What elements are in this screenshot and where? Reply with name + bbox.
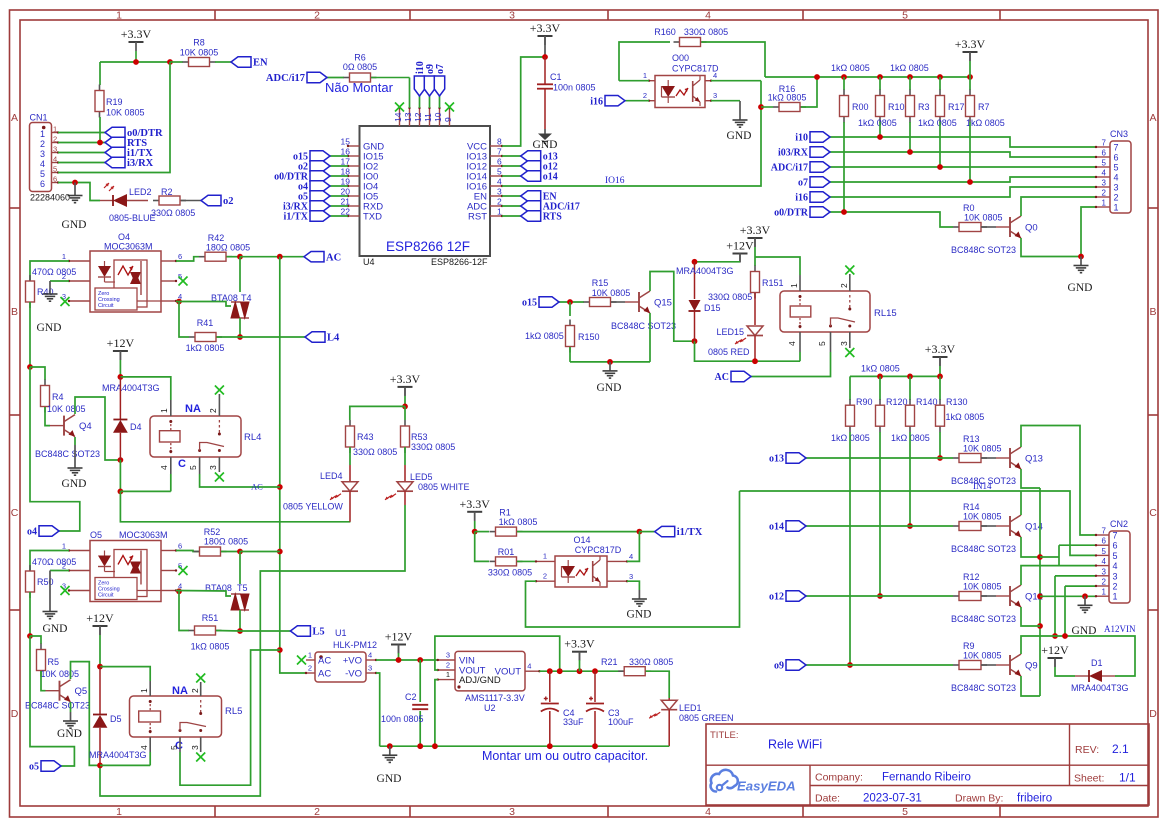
svg-text:R1: R1 [499,508,511,518]
svg-text:Q9: Q9 [1025,661,1038,672]
svg-text:CN2: CN2 [1110,519,1128,529]
svg-text:RST: RST [468,212,487,223]
svg-text:o13: o13 [769,454,784,465]
svg-text:R19: R19 [106,97,123,107]
svg-text:O4: O4 [118,232,130,242]
svg-text:3: 3 [1113,571,1118,581]
svg-text:3: 3 [190,745,200,750]
svg-text:9: 9 [443,117,453,122]
svg-text:L4: L4 [327,333,340,344]
svg-text:R52: R52 [204,527,221,537]
svg-text:A12VIN: A12VIN [1104,624,1136,634]
svg-text:LED2: LED2 [129,187,152,197]
svg-text:2: 2 [190,688,200,693]
svg-text:o15: o15 [522,298,537,309]
svg-text:o4: o4 [27,527,37,538]
svg-text:R3: R3 [918,102,930,112]
svg-text:U2: U2 [484,703,496,713]
svg-text:LED15: LED15 [716,327,744,337]
svg-text:2.1: 2.1 [1112,742,1129,756]
svg-text:GND: GND [533,139,558,151]
svg-text:6: 6 [1114,153,1119,163]
svg-text:D: D [11,708,19,720]
svg-text:3: 3 [53,145,57,154]
svg-text:Drawn By:: Drawn By: [955,793,1003,805]
svg-text:18: 18 [341,167,351,177]
svg-text:i16: i16 [795,193,808,204]
svg-text:3: 3 [1114,183,1119,193]
svg-text:GND: GND [597,382,622,394]
svg-text:2: 2 [1102,189,1107,198]
svg-text:10: 10 [433,112,443,122]
svg-text:1: 1 [116,806,122,818]
svg-text:5: 5 [902,10,908,22]
svg-text:Q0: Q0 [1025,223,1038,234]
svg-text:BC848C SOT23: BC848C SOT23 [25,701,90,711]
svg-text:1: 1 [1102,199,1107,208]
svg-text:1kΩ 0805: 1kΩ 0805 [946,412,985,422]
svg-text:1: 1 [139,688,149,693]
svg-text:+VO: +VO [343,656,362,667]
svg-text:1kΩ 0805: 1kΩ 0805 [191,642,230,652]
svg-text:12: 12 [413,112,423,122]
svg-text:14: 14 [393,112,403,122]
svg-text:20: 20 [341,187,351,197]
svg-text:7: 7 [1102,139,1107,148]
svg-text:Rele WiFi: Rele WiFi [768,738,822,752]
svg-text:Montar um ou outro capacitor.: Montar um ou outro capacitor. [482,749,648,763]
svg-text:GND: GND [62,478,87,490]
svg-text:ADJ/GND: ADJ/GND [459,675,501,686]
svg-text:13: 13 [403,112,413,122]
svg-text:ESP8266-12F: ESP8266-12F [431,257,488,267]
svg-text:GND: GND [627,609,652,621]
svg-text:R12: R12 [963,572,980,582]
svg-text:4: 4 [1114,173,1119,183]
svg-text:1: 1 [62,542,66,551]
svg-text:1: 1 [497,207,502,217]
svg-text:0805 WHITE: 0805 WHITE [418,482,470,492]
svg-text:B: B [11,306,18,318]
svg-text:4: 4 [527,662,531,671]
svg-text:1: 1 [643,71,647,80]
svg-text:4: 4 [1102,557,1107,566]
svg-text:BC848C SOT23: BC848C SOT23 [35,449,100,459]
svg-text:NA: NA [172,685,188,697]
svg-text:2: 2 [643,91,647,100]
svg-text:AC: AC [318,656,331,667]
svg-text:1kΩ 0805: 1kΩ 0805 [499,517,538,527]
svg-text:4: 4 [787,341,797,346]
svg-text:R50: R50 [37,577,54,587]
svg-text:17: 17 [341,157,351,167]
svg-text:5: 5 [1113,551,1118,561]
svg-text:GND: GND [37,322,62,334]
svg-text:R6: R6 [354,53,366,63]
svg-text:LED5: LED5 [410,472,433,482]
svg-text:i16: i16 [590,96,603,107]
svg-text:33uF: 33uF [563,717,584,727]
svg-text:IN14: IN14 [973,481,992,491]
svg-text:O00: O00 [672,53,689,63]
svg-text:1: 1 [789,283,799,288]
svg-text:RL4: RL4 [244,432,261,443]
svg-text:i03/RX: i03/RX [778,148,809,159]
svg-text:1kΩ 0805: 1kΩ 0805 [918,118,957,128]
svg-text:2: 2 [314,10,320,22]
svg-text:6: 6 [178,252,182,261]
svg-text:D: D [1149,708,1157,720]
svg-text:1: 1 [159,408,169,413]
svg-text:5: 5 [169,745,179,750]
svg-text:o5: o5 [29,762,39,773]
svg-text:LED4: LED4 [320,471,343,481]
svg-text:2: 2 [40,139,45,149]
svg-text:T4: T4 [241,293,252,303]
svg-text:470Ω 0805: 470Ω 0805 [32,267,76,277]
svg-text:GND: GND [727,130,752,142]
svg-text:i1/TX: i1/TX [284,212,309,223]
svg-text:3: 3 [40,149,45,159]
svg-text:AC: AC [251,482,263,492]
svg-text:7: 7 [497,147,502,157]
svg-text:1kΩ 0805: 1kΩ 0805 [768,93,807,103]
svg-text:Não Montar: Não Montar [325,80,394,95]
svg-text:Date:: Date: [815,793,840,805]
svg-text:2: 2 [543,572,547,581]
svg-text:22284060: 22284060 [30,193,70,203]
svg-text:o14: o14 [769,522,784,533]
svg-text:Sheet:: Sheet: [1074,773,1104,785]
svg-text:1: 1 [543,552,547,561]
svg-text:R150: R150 [578,332,600,342]
svg-text:7: 7 [1114,143,1119,153]
svg-text:3: 3 [368,664,372,673]
svg-text:R140: R140 [916,397,938,407]
svg-text:R90: R90 [856,397,873,407]
svg-text:TXD: TXD [363,212,382,223]
svg-text:O5: O5 [90,530,102,540]
svg-text:Q5: Q5 [75,686,88,697]
svg-text:2: 2 [1113,582,1118,592]
svg-text:8: 8 [497,137,502,147]
svg-text:RL15: RL15 [874,308,897,319]
svg-text:BC848C SOT23: BC848C SOT23 [951,544,1016,554]
svg-text:1kΩ 0805: 1kΩ 0805 [966,118,1005,128]
svg-text:U4: U4 [363,257,375,267]
svg-text:i3/RX: i3/RX [127,158,154,169]
svg-text:3: 3 [629,572,633,581]
svg-text:3: 3 [839,341,849,346]
svg-text:6: 6 [497,157,502,167]
svg-text:O14: O14 [573,535,590,545]
svg-text:Fernando Ribeiro: Fernando Ribeiro [882,772,971,784]
svg-text:+3.3V: +3.3V [390,372,421,386]
svg-text:6: 6 [1113,541,1118,551]
svg-text:+12V: +12V [726,239,754,253]
svg-text:2: 2 [308,664,312,673]
svg-text:4: 4 [53,155,57,164]
svg-text:4: 4 [1113,561,1118,571]
svg-text:100n 0805: 100n 0805 [381,714,424,724]
svg-text:10K 0805: 10K 0805 [963,512,1002,522]
svg-text:Circuit: Circuit [98,303,114,309]
svg-text:3: 3 [1102,567,1107,576]
svg-text:R41: R41 [197,318,214,328]
svg-text:3: 3 [509,10,515,22]
svg-text:3: 3 [1102,179,1107,188]
svg-text:11: 11 [423,113,433,122]
svg-text:R13: R13 [963,434,980,444]
svg-text:1: 1 [1113,592,1118,602]
svg-text:10K 0805: 10K 0805 [180,48,219,58]
svg-text:BC848C SOT23: BC848C SOT23 [611,321,676,331]
svg-text:GND: GND [57,728,82,740]
svg-text:3: 3 [446,651,450,660]
svg-text:10K 0805: 10K 0805 [963,444,1002,454]
svg-text:o0/DTR: o0/DTR [774,208,809,219]
svg-text:Q4: Q4 [79,421,92,432]
svg-text:7: 7 [1102,527,1107,536]
svg-text:BC848C SOT23: BC848C SOT23 [951,245,1016,255]
svg-text:1: 1 [116,10,122,22]
svg-text:CN1: CN1 [30,113,48,123]
svg-text:R40: R40 [37,287,54,297]
svg-text:6: 6 [40,179,45,189]
svg-text:LED1: LED1 [679,703,702,713]
svg-text:R53: R53 [411,432,428,442]
svg-text:R00: R00 [852,102,869,112]
svg-text:A: A [11,112,18,124]
svg-text:MRA4004T3G: MRA4004T3G [676,266,734,276]
svg-text:Company:: Company: [815,772,863,784]
svg-text:330Ω 0805: 330Ω 0805 [353,447,397,457]
svg-text:5: 5 [1102,547,1107,556]
svg-text:5: 5 [902,806,908,818]
svg-text:C: C [11,507,19,519]
svg-text:AMS1117-3.3V: AMS1117-3.3V [465,693,525,703]
svg-text:+12V: +12V [1041,643,1069,657]
svg-text:5: 5 [53,165,57,174]
svg-text:D1: D1 [1091,658,1103,668]
svg-text:R17: R17 [948,102,965,112]
svg-text:GND: GND [1068,282,1093,294]
svg-text:330Ω 0805: 330Ω 0805 [629,657,673,667]
svg-text:fribeiro: fribeiro [1017,793,1052,805]
svg-text:100n 0805: 100n 0805 [553,83,596,93]
svg-text:Q15: Q15 [654,298,672,309]
svg-text:MRA4004T3G: MRA4004T3G [102,383,160,393]
svg-text:1kΩ 0805: 1kΩ 0805 [186,343,225,353]
svg-text:100uF: 100uF [608,717,634,727]
svg-text:470Ω 0805: 470Ω 0805 [32,557,76,567]
svg-text:0Ω 0805: 0Ω 0805 [343,62,377,72]
svg-text:AC: AC [318,669,331,680]
svg-text:5: 5 [40,169,45,179]
svg-text:2: 2 [1102,578,1107,587]
svg-text:3: 3 [497,187,502,197]
svg-text:R0: R0 [963,203,975,213]
svg-text:MRA4004T3G: MRA4004T3G [1071,683,1129,693]
svg-text:C1: C1 [550,72,562,82]
svg-text:R51: R51 [202,613,219,623]
svg-text:1kΩ 0805: 1kΩ 0805 [890,63,929,73]
svg-text:16: 16 [341,147,351,157]
svg-text:+3.3V: +3.3V [459,497,490,511]
svg-text:10K 0805: 10K 0805 [592,288,631,298]
svg-text:B: B [1149,306,1156,318]
svg-text:2: 2 [1114,193,1119,203]
svg-text:180Ω 0805: 180Ω 0805 [204,537,248,547]
svg-text:4: 4 [40,159,45,169]
svg-text:4: 4 [629,552,633,561]
svg-text:330Ω 0805: 330Ω 0805 [708,292,752,302]
svg-text:Q13: Q13 [1025,454,1043,465]
svg-text:BC848C SOT23: BC848C SOT23 [951,614,1016,624]
svg-text:GND: GND [43,623,68,635]
svg-text:o7: o7 [798,178,808,189]
svg-text:R5: R5 [48,657,60,667]
svg-text:NA: NA [185,403,201,415]
svg-text:5: 5 [497,167,502,177]
svg-text:ADC/i17: ADC/i17 [266,73,305,84]
svg-text:10K 0805: 10K 0805 [963,582,1002,592]
svg-text:i1/TX: i1/TX [677,527,703,538]
svg-text:330Ω 0805: 330Ω 0805 [151,208,195,218]
svg-text:0805 GREEN: 0805 GREEN [679,713,734,723]
svg-text:U1: U1 [335,628,347,638]
svg-text:ADC/i17: ADC/i17 [771,163,808,174]
svg-text:BC848C SOT23: BC848C SOT23 [951,683,1016,693]
svg-text:6: 6 [1102,149,1107,158]
svg-text:IO16: IO16 [605,176,625,186]
svg-text:+12V: +12V [86,611,114,625]
svg-text:R01: R01 [498,547,515,557]
svg-text:180Ω 0805: 180Ω 0805 [206,243,250,253]
svg-text:4: 4 [1102,169,1107,178]
svg-text:1kΩ 0805: 1kΩ 0805 [858,118,897,128]
svg-text:7: 7 [1113,531,1118,541]
svg-text:21: 21 [341,197,351,207]
svg-text:-VO: -VO [345,669,362,680]
svg-text:AC: AC [326,252,341,263]
svg-text:2: 2 [314,806,320,818]
svg-text:C2: C2 [405,692,417,702]
svg-text:0805 RED: 0805 RED [708,347,750,357]
svg-text:1: 1 [1114,203,1119,213]
svg-text:ESP8266 12F: ESP8266 12F [386,239,470,254]
svg-text:L5: L5 [312,627,324,638]
svg-text:R9: R9 [963,641,975,651]
svg-text:R43: R43 [357,432,374,442]
svg-text:1: 1 [53,125,57,134]
svg-text:2: 2 [208,408,218,413]
svg-text:19: 19 [341,177,351,187]
svg-text:5: 5 [1114,163,1119,173]
svg-text:1: 1 [62,252,66,261]
svg-text:0805 YELLOW: 0805 YELLOW [283,502,343,512]
svg-text:CYPC817D: CYPC817D [575,545,622,555]
svg-text:4: 4 [705,806,711,818]
svg-text:+3.3V: +3.3V [530,21,561,35]
svg-text:5: 5 [817,341,827,346]
svg-text:D5: D5 [110,714,122,724]
svg-text:330Ω 0805: 330Ω 0805 [684,27,728,37]
svg-text:+3.3V: +3.3V [955,37,986,51]
svg-text:2023-07-31: 2023-07-31 [863,793,922,805]
svg-text:i10: i10 [795,133,808,144]
svg-text:C: C [1149,507,1157,519]
svg-text:AC: AC [715,372,729,383]
svg-text:4: 4 [713,71,717,80]
svg-text:6: 6 [178,542,182,551]
svg-text:4: 4 [139,745,149,750]
svg-text:+3.3V: +3.3V [740,223,771,237]
svg-text:R8: R8 [193,38,205,48]
svg-text:1: 1 [446,670,450,679]
svg-text:10K 0805: 10K 0805 [47,404,86,414]
svg-text:1kΩ 0805: 1kΩ 0805 [831,63,870,73]
svg-text:R21: R21 [601,657,618,667]
svg-text:+12V: +12V [107,336,135,350]
svg-text:0805-BLUE: 0805-BLUE [109,213,156,223]
svg-text:D15: D15 [704,303,721,313]
svg-text:330Ω 0805: 330Ω 0805 [488,568,532,578]
svg-text:GND: GND [62,219,87,231]
svg-text:6: 6 [1102,537,1107,546]
svg-text:4: 4 [159,465,169,470]
svg-text:22: 22 [341,207,351,217]
svg-text:10K 0805: 10K 0805 [964,213,1003,223]
svg-text:5: 5 [188,465,198,470]
svg-text:R120: R120 [886,397,908,407]
svg-text:RTS: RTS [543,212,563,223]
svg-text:R15: R15 [592,278,609,288]
svg-text:1kΩ 0805: 1kΩ 0805 [861,364,900,374]
svg-text:MOC3063M: MOC3063M [104,242,153,252]
svg-text:R160: R160 [654,27,676,37]
svg-text:4: 4 [497,177,502,187]
svg-text:R151: R151 [762,278,784,288]
svg-text:10K 0805: 10K 0805 [41,669,80,679]
svg-text:+12V: +12V [385,630,413,644]
svg-text:A: A [1149,112,1156,124]
svg-text:o14: o14 [543,172,558,183]
svg-text:MRA4004T3G: MRA4004T3G [89,750,147,760]
svg-text:R10: R10 [888,102,905,112]
svg-text:C: C [178,458,186,470]
svg-text:o7: o7 [435,64,446,74]
svg-text:o9: o9 [774,661,784,672]
svg-text:3: 3 [208,465,218,470]
svg-text:1/1: 1/1 [1119,771,1136,785]
svg-text:2: 2 [53,135,57,144]
svg-text:6: 6 [53,175,57,184]
svg-text:R2: R2 [161,187,173,197]
svg-text:2: 2 [839,283,849,288]
svg-text:o2: o2 [223,196,234,207]
svg-text:1: 1 [40,129,45,139]
svg-text:+3.3V: +3.3V [564,637,595,651]
svg-text:CN3: CN3 [1110,129,1128,139]
svg-text:R4: R4 [52,392,64,402]
svg-text:10K 0805: 10K 0805 [106,108,145,118]
svg-text:MOC3063M: MOC3063M [119,530,168,540]
svg-text:10K 0805: 10K 0805 [963,651,1002,661]
svg-text:EN: EN [253,58,268,69]
svg-text:o12: o12 [769,592,784,603]
svg-text:EasyEDA: EasyEDA [737,779,796,794]
